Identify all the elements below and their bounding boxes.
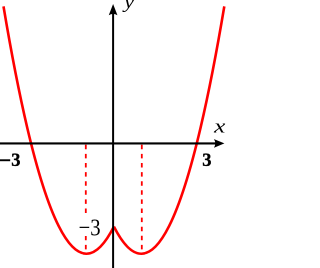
svg-text:y: y: [122, 0, 135, 13]
white backing box of the -3 value label: [77, 213, 103, 236]
y-axis arrowhead: [109, 4, 118, 15]
curve left branch of W-shaped graph: [4, 6, 114, 253]
x-axis: [0, 142, 216, 144]
y-axis: [112, 13, 114, 268]
x-axis arrowhead: [214, 139, 224, 148]
svg-text:3: 3: [11, 151, 20, 171]
svg-text:x: x: [213, 117, 226, 138]
minus bar of bold -3 x-intercept label (clipped at left edge): [0, 159, 10, 161]
svg-text:3: 3: [202, 151, 211, 171]
dashed line x=1 (from x-axis down to right minimum): [141, 145, 143, 252]
svg-text:−3: −3: [79, 214, 101, 241]
dashed line x=-1 (from x-axis down to left minimum): [85, 145, 87, 252]
curve right branch of W-shaped graph: [114, 6, 224, 253]
